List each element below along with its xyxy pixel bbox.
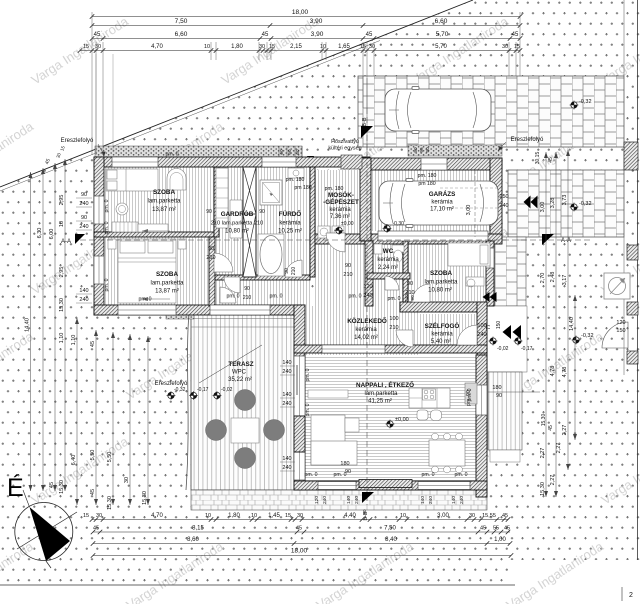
- kitchen window box: [465, 383, 477, 404]
- svg-text:Ereszlefolyó: Ereszlefolyó: [61, 138, 94, 144]
- furdo tub: [258, 234, 284, 276]
- svg-text:5,40 m²: 5,40 m²: [431, 339, 451, 345]
- windows nappali south: [318, 482, 356, 490]
- svg-text:kerámia: kerámia: [377, 257, 399, 263]
- svg-text:5,50: 5,50: [90, 450, 96, 461]
- gravel strip above garage: [408, 145, 502, 156]
- svg-text:210: 210: [291, 267, 297, 276]
- wc sink: [374, 244, 382, 254]
- svg-text:15,30: 15,30: [107, 496, 113, 510]
- wall gardrob-furdo south wall: [214, 275, 310, 280]
- level mark driveway: [570, 101, 579, 110]
- driveway pavers top: [358, 76, 624, 147]
- arrows right of szoba3: [490, 292, 497, 302]
- section marker B-B top: [361, 126, 373, 138]
- bottom dimension row2: [93, 531, 510, 533]
- svg-text:-0,17: -0,17: [197, 387, 209, 393]
- svg-text:30: 30: [297, 513, 303, 519]
- svg-text:7,50: 7,50: [384, 526, 396, 532]
- svg-text:SZOBA: SZOBA: [153, 189, 175, 196]
- svg-text:90: 90: [345, 263, 351, 269]
- svg-text:15: 15: [83, 513, 89, 519]
- section marker A-A left: [75, 234, 85, 244]
- svg-text:14,40: 14,40: [569, 317, 575, 331]
- svg-text:100: 100: [389, 316, 398, 322]
- wall east garage: [490, 158, 502, 241]
- door hall-nappali opening: [322, 345, 385, 353]
- svg-text:pm. 0: pm. 0: [104, 278, 110, 291]
- garage door opening: [378, 231, 488, 241]
- szoba1 floor arrow: [142, 230, 170, 232]
- svg-text:2,70: 2,70: [540, 273, 546, 284]
- wc floor: [371, 244, 403, 273]
- svg-text:SZÉLFOGÓ: SZÉLFOGÓ: [425, 321, 460, 330]
- svg-text:8,60: 8,60: [187, 537, 199, 543]
- wall szelfogo east: [477, 302, 487, 371]
- svg-text:240: 240: [282, 465, 291, 471]
- svg-text:30: 30: [96, 513, 102, 519]
- wall gardrob-furdo divider: [251, 167, 256, 237]
- wall nappali east: [476, 355, 487, 497]
- svg-text:B-B: B-B: [362, 117, 368, 127]
- hall floor below wc: [367, 279, 403, 306]
- svg-text:240: 240: [363, 293, 372, 299]
- section marker A-A right: [542, 234, 554, 245]
- svg-text:4,78: 4,78: [562, 367, 568, 378]
- svg-text:WC: WC: [383, 248, 394, 255]
- svg-text:240: 240: [428, 496, 434, 504]
- svg-text:2,95: 2,95: [59, 195, 65, 206]
- svg-text:90: 90: [259, 209, 265, 215]
- svg-text:pm. 0: pm. 0: [166, 152, 179, 158]
- wall szoba divider: [94, 232, 214, 237]
- insulation arrows right of szelfogo: [513, 325, 522, 339]
- svg-text:2,27: 2,27: [540, 448, 546, 459]
- svg-text:8,40: 8,40: [385, 537, 397, 543]
- svg-text:7,36 m²: 7,36 m²: [330, 214, 350, 220]
- furdo floor: [256, 167, 310, 275]
- svg-text:41,25 m²: 41,25 m²: [368, 399, 392, 405]
- svg-text:±0,00: ±0,00: [341, 221, 354, 227]
- wall nappali north: [294, 345, 487, 353]
- gas meter box: [604, 273, 630, 299]
- svg-text:90: 90: [81, 215, 87, 221]
- west wall pier: [294, 416, 305, 452]
- svg-text:SZOBA: SZOBA: [156, 271, 178, 278]
- svg-text:1,65: 1,65: [338, 44, 350, 50]
- svg-text:120: 120: [363, 284, 372, 290]
- svg-text:240: 240: [79, 297, 88, 303]
- top dimension chain row1 18,00: [92, 16, 520, 18]
- fence pillar 1: [624, 142, 638, 170]
- svg-text:-0,02: -0,02: [221, 387, 233, 393]
- right strip pavers: [508, 170, 624, 237]
- szoba1 side table + plant: [116, 203, 128, 215]
- svg-text:4,40: 4,40: [344, 513, 356, 519]
- entry porch: [487, 306, 527, 372]
- door wc: [385, 276, 399, 290]
- entry walk pavers right of garage: [494, 237, 526, 306]
- svg-text:90: 90: [81, 192, 87, 198]
- wall nappali south: [294, 481, 487, 490]
- wall west nappali: [294, 305, 305, 490]
- svg-text:pm. 90: pm. 90: [466, 390, 472, 406]
- svg-text:18,00: 18,00: [291, 548, 308, 555]
- svg-text:Ereszlefolyó: Ereszlefolyó: [511, 137, 544, 143]
- svg-text:Ereszlefolyó: Ereszlefolyó: [155, 381, 188, 387]
- svg-text:140: 140: [282, 392, 291, 398]
- compass needle: [30, 507, 71, 561]
- svg-text:±0,00: ±0,00: [395, 417, 409, 423]
- svg-text:240: 240: [79, 201, 88, 207]
- svg-text:pm 180: pm 180: [418, 181, 435, 187]
- svg-text:240: 240: [354, 496, 360, 504]
- svg-text:1,10: 1,10: [59, 333, 65, 344]
- svg-text:pm 180: pm 180: [294, 185, 311, 191]
- nappali kitchen counter: [409, 388, 450, 408]
- svg-text:15,30: 15,30: [540, 482, 546, 496]
- window szoba2 south: [118, 305, 176, 315]
- fence pillar 4: [627, 351, 638, 364]
- svg-text:45: 45: [366, 32, 373, 38]
- svg-text:15,30: 15,30: [59, 298, 65, 312]
- garage door dashed leaders: [378, 235, 488, 237]
- svg-text:lam.parketta: lam.parketta: [147, 199, 181, 205]
- wall wc south wall: [367, 273, 410, 279]
- driveway inner edge line: [366, 78, 368, 156]
- svg-text:FÜRDŐ: FÜRDŐ: [279, 209, 301, 218]
- svg-text:180: 180: [340, 461, 349, 467]
- svg-text:15: 15: [269, 44, 275, 50]
- svg-text:pm. 0: pm. 0: [305, 472, 318, 478]
- level mark mosok: [335, 226, 344, 235]
- svg-text:-0,32: -0,32: [581, 333, 594, 339]
- szoba1 bed: [106, 169, 158, 191]
- wall north garage: [360, 158, 502, 170]
- svg-text:45: 45: [93, 526, 99, 532]
- window furdo north: [262, 157, 296, 167]
- mosok washer/dryer: [318, 226, 330, 238]
- svg-text:GARDRÓB: GARDRÓB: [221, 209, 254, 218]
- svg-text:90: 90: [244, 286, 250, 292]
- canopy block over south wall: [359, 480, 412, 488]
- section marker B-B bottom: [362, 492, 374, 503]
- wc toilet: [392, 245, 404, 252]
- svg-text:45: 45: [504, 526, 510, 532]
- szoba2 bed: [118, 239, 176, 303]
- bottom dimension row1: [92, 519, 508, 521]
- insulation arrows right of garage: [531, 196, 538, 209]
- svg-text:45: 45: [49, 482, 55, 488]
- svg-text:18,00: 18,00: [292, 9, 309, 16]
- svg-text:90: 90: [208, 246, 214, 252]
- hall floor: [214, 280, 310, 306]
- svg-text:É: É: [7, 473, 24, 502]
- gardrob closets: [216, 168, 228, 228]
- svg-text:pm. 180: pm. 180: [418, 173, 437, 179]
- svg-text:-0,17: -0,17: [521, 346, 533, 352]
- svg-text:140: 140: [346, 496, 352, 504]
- wall garage-mosok divider: [360, 158, 371, 241]
- door szoba2->hall: [220, 287, 236, 303]
- svg-text:2,27: 2,27: [556, 443, 562, 454]
- svg-text:6,00: 6,00: [49, 229, 55, 240]
- svg-text:kerámia: kerámia: [355, 327, 377, 333]
- svg-text:WPC: WPC: [232, 370, 247, 376]
- svg-text:10,25 m²: 10,25 m²: [278, 229, 302, 235]
- dining table: [429, 440, 465, 466]
- svg-text:10: 10: [205, 513, 211, 519]
- svg-text:pm. 0: pm. 0: [227, 294, 240, 300]
- svg-text:45: 45: [296, 526, 302, 532]
- szoba2 floor: [104, 237, 214, 305]
- svg-text:1,00: 1,00: [494, 537, 506, 543]
- level marks terrace: [167, 391, 176, 400]
- wall west: [94, 157, 104, 315]
- sofa: [311, 415, 345, 465]
- svg-text:30: 30: [259, 44, 265, 50]
- svg-text:13,87 m²: 13,87 m²: [155, 289, 179, 295]
- nappali floor: [305, 355, 476, 481]
- svg-text:1,80: 1,80: [228, 513, 240, 519]
- svg-text:3,17: 3,17: [562, 275, 568, 286]
- right dimension verticals: [545, 152, 547, 497]
- svg-text:7,50: 7,50: [175, 18, 188, 25]
- svg-text:210: 210: [206, 255, 215, 261]
- door terrace from nappali: [296, 365, 298, 395]
- szoba1 arch chair: [167, 169, 186, 190]
- svg-text:3,90: 3,90: [310, 18, 323, 25]
- svg-text:15: 15: [83, 44, 89, 50]
- level mark garage: [383, 224, 392, 233]
- door mosok: [326, 233, 345, 252]
- svg-text:30,15: 30,15: [535, 152, 541, 165]
- svg-text:3,00: 3,00: [437, 513, 449, 519]
- level mark nappali: [386, 420, 395, 429]
- svg-text:pm. 0: pm. 0: [388, 296, 401, 302]
- svg-text:10: 10: [320, 44, 326, 50]
- svg-text:A-A: A-A: [561, 238, 571, 244]
- svg-text:pm. 0: pm. 0: [422, 472, 435, 478]
- svg-text:210: 210: [243, 295, 252, 301]
- szoba1 small dresser: [138, 224, 168, 232]
- svg-text:3,28: 3,28: [550, 198, 556, 209]
- garage car: [379, 179, 498, 228]
- svg-text:60: 60: [287, 149, 292, 155]
- svg-text:30: 30: [124, 477, 130, 483]
- svg-text:150: 150: [496, 321, 502, 330]
- svg-text:90: 90: [413, 147, 419, 153]
- svg-text:pm. 0: pm. 0: [270, 294, 283, 300]
- svg-text:GARÁZS: GARÁZS: [429, 189, 456, 198]
- szoba2 floor arrow: [142, 298, 170, 300]
- bottom dimension row4: [93, 555, 511, 557]
- svg-text:45: 45: [90, 341, 96, 347]
- terrace deck: [191, 313, 297, 490]
- svg-text:-0,32: -0,32: [579, 99, 592, 105]
- svg-text:60: 60: [295, 149, 300, 155]
- svg-text:6,30: 6,30: [37, 228, 43, 239]
- property boundary line: [0, 0, 473, 187]
- kitchen stools: [417, 410, 428, 420]
- svg-text:10: 10: [204, 44, 210, 50]
- window szoba2 west: [94, 256, 104, 284]
- szoba3 desk chair: [466, 277, 484, 286]
- szoba1 floor: [104, 167, 214, 232]
- svg-text:45: 45: [480, 526, 486, 532]
- svg-text:15: 15: [285, 513, 291, 519]
- svg-text:Hőszivattyú: Hőszivattyú: [331, 139, 359, 145]
- section line B-B: [366, 108, 368, 505]
- svg-text:14,40: 14,40: [25, 318, 31, 332]
- svg-text:2,24 m²: 2,24 m²: [378, 265, 398, 271]
- left upper extension verticals: [95, 54, 97, 152]
- szoba3 bed: [448, 243, 490, 266]
- svg-text:95: 95: [419, 147, 425, 153]
- wall garage south / szoba3 north: [310, 234, 502, 244]
- svg-text:45: 45: [94, 32, 101, 38]
- svg-text:3,00: 3,00: [466, 205, 472, 216]
- svg-text:kerámia: kerámia: [431, 332, 453, 338]
- svg-text:MOSÓK-: MOSÓK-: [328, 190, 354, 199]
- svg-text:15: 15: [514, 44, 520, 50]
- level mark porch: [489, 337, 498, 346]
- svg-text:pm. 180: pm. 180: [286, 177, 305, 183]
- tv board: [308, 390, 348, 398]
- svg-text:55: 55: [493, 526, 499, 532]
- level mark entry paving: [570, 203, 579, 212]
- svg-text:240: 240: [459, 496, 465, 504]
- terrace table: [231, 418, 259, 443]
- terrace west garden edge: [186, 313, 189, 490]
- svg-text:45: 45: [548, 425, 554, 431]
- wall east middle: [486, 241, 494, 306]
- window szoba1 north: [112, 157, 158, 167]
- svg-text:240: 240: [499, 203, 508, 209]
- svg-text:kerámia: kerámia: [279, 221, 301, 227]
- svg-text:6,60: 6,60: [175, 31, 188, 38]
- svg-text:90: 90: [410, 295, 416, 301]
- svg-text:lam.parketta: lam.parketta: [424, 280, 458, 286]
- gardrob floor: [214, 167, 244, 275]
- svg-text:-0,32: -0,32: [174, 387, 186, 393]
- svg-text:60: 60: [362, 509, 367, 515]
- shaft with X bracing: [243, 167, 256, 277]
- door szelfogo->hall: [396, 330, 413, 347]
- svg-text:2,27: 2,27: [550, 475, 556, 486]
- compass circle: [15, 503, 73, 561]
- szelfogo floor: [413, 314, 477, 345]
- terrace chairs: [235, 390, 256, 411]
- svg-text:240: 240: [322, 496, 328, 504]
- svg-text:5,70: 5,70: [435, 44, 447, 50]
- svg-text:45: 45: [90, 489, 96, 495]
- svg-text:210 lam.parketta 210: 210 lam.parketta 210: [211, 221, 264, 227]
- szoba3 floor: [408, 244, 486, 301]
- window nappali east: [476, 385, 487, 415]
- door szoba1->hall: [214, 253, 233, 272]
- svg-text:140: 140: [420, 496, 426, 504]
- svg-text:lam.parketta: lam.parketta: [364, 391, 398, 397]
- svg-text:pm. 0: pm. 0: [104, 221, 110, 234]
- svg-text:5,70: 5,70: [436, 31, 449, 38]
- svg-text:15,30: 15,30: [142, 491, 148, 505]
- entry walkway south: [488, 372, 522, 450]
- svg-text:90: 90: [284, 268, 290, 274]
- svg-text:17,10 m²: 17,10 m²: [430, 207, 454, 213]
- page number 2: [621, 587, 623, 601]
- gate arc: [602, 322, 628, 348]
- wall south left wing: [94, 305, 305, 315]
- svg-text:10,80 m²: 10,80 m²: [225, 229, 249, 235]
- svg-text:240: 240: [282, 369, 291, 375]
- top dimension chain row2: [92, 25, 520, 27]
- svg-text:180: 180: [492, 385, 501, 391]
- svg-text:-0,32: -0,32: [579, 201, 592, 207]
- wall szoba2 east wall: [209, 237, 215, 306]
- door entrance: [457, 325, 477, 345]
- svg-text:10,80 m²: 10,80 m²: [428, 288, 452, 294]
- wall szoba-gardrob divider: [214, 167, 219, 237]
- svg-text:SZOBA: SZOBA: [430, 270, 452, 277]
- door gardrob: [224, 277, 240, 293]
- svg-text:4,78: 4,78: [550, 366, 556, 377]
- svg-text:2,48: 2,48: [550, 272, 556, 283]
- wall wc west: [365, 241, 373, 306]
- wall szelfogo north: [400, 302, 487, 312]
- svg-text:35,22 m²: 35,22 m²: [228, 377, 252, 383]
- svg-text:90: 90: [407, 281, 413, 287]
- gravel strip below left wing: [195, 317, 295, 327]
- svg-text:2,15: 2,15: [290, 44, 302, 50]
- bottom dimension row3: [93, 543, 510, 545]
- compass axis line: [17, 512, 77, 549]
- wall wc-szoba3 divider: [403, 241, 408, 306]
- svg-text:3,00: 3,00: [540, 202, 546, 213]
- stone path south: [191, 490, 487, 510]
- svg-text:1,45: 1,45: [268, 513, 280, 519]
- svg-text:kültéri egység: kültéri egység: [328, 146, 361, 152]
- svg-text:kerámia: kerámia: [329, 207, 351, 213]
- svg-text:kerámia: kerámia: [431, 200, 453, 206]
- svg-text:140: 140: [282, 360, 291, 366]
- svg-text:15,30: 15,30: [59, 480, 65, 494]
- svg-text:10: 10: [400, 513, 406, 519]
- furdo sink: [288, 168, 304, 178]
- svg-text:2: 2: [629, 592, 633, 599]
- svg-text:14,02 m²: 14,02 m²: [354, 335, 378, 341]
- svg-text:lam.parketta: lam.parketta: [150, 281, 184, 287]
- svg-text:NAPPALI , ÉTKEZŐ: NAPPALI , ÉTKEZŐ: [356, 380, 414, 389]
- furdo shower: [260, 180, 282, 205]
- svg-text:KÖZLEKEDŐ: KÖZLEKEDŐ: [347, 316, 387, 325]
- windows nappali west: [294, 356, 305, 416]
- fence pillar 3: [627, 302, 638, 315]
- svg-text:TERASZ: TERASZ: [228, 361, 253, 368]
- svg-text:8,15: 8,15: [192, 526, 204, 532]
- svg-text:pm. 0: pm. 0: [104, 199, 110, 212]
- svg-text:45: 45: [502, 513, 508, 519]
- svg-text:240: 240: [79, 224, 88, 230]
- kitchen hob: [423, 389, 436, 400]
- svg-text:240: 240: [282, 401, 291, 407]
- svg-text:250: 250: [499, 194, 508, 200]
- svg-text:90: 90: [206, 209, 212, 215]
- mosok floor: [315, 170, 360, 236]
- window hall south to terrace: [210, 305, 270, 315]
- svg-text:13,87 m²: 13,87 m²: [152, 207, 176, 213]
- level mark gate: [572, 336, 581, 345]
